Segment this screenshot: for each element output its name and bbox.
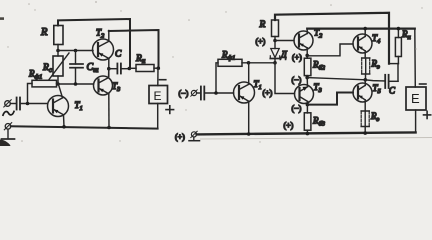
wire T5 collector up [364, 80, 366, 86]
wire inner bus right circuit [307, 28, 415, 30]
input terminal right [191, 90, 197, 96]
resistor Rb2 [304, 58, 311, 75]
capacitor C [117, 64, 129, 74]
node Rb3 rail [306, 132, 310, 136]
wire mid bus to cap C right [365, 80, 385, 81]
diode D [270, 49, 279, 63]
resistor Rn right [395, 38, 401, 57]
node Rn E junction [157, 66, 161, 70]
transistor T1 [48, 96, 69, 117]
wire R bottom to thermistor [57, 45, 59, 57]
transistor T4 [353, 34, 372, 53]
node R diode T2 base [273, 39, 277, 43]
node Csh top [74, 49, 78, 53]
wire T1 collector up to bus [59, 85, 63, 98]
svg-text:R: R [40, 27, 48, 38]
capacitor input right [197, 87, 234, 100]
svg-text:(−): (−) [179, 89, 189, 98]
wire R bottom to diode [274, 37, 276, 49]
wire Rn bottom link [389, 63, 398, 65]
resistor R [54, 26, 63, 45]
wire T3 emitter down [108, 94, 110, 128]
wire Rc bottom lead [57, 76, 59, 84]
label minus [160, 79, 166, 81]
resistor Rb3 [304, 113, 311, 130]
wire bus right end down to battery [414, 29, 417, 87]
wire base bus to T2 [58, 50, 93, 52]
wire top rail right circuit [275, 13, 389, 64]
node T4 collector [363, 27, 367, 31]
wire Re1 bottom lead [365, 74, 367, 80]
svg-text:C: C [115, 50, 122, 60]
wire input to cap [10, 103, 16, 105]
wire Rb3 top lead [306, 105, 308, 113]
wire T4 emitter down [364, 51, 366, 58]
node output junction [107, 67, 111, 71]
node base bus T2 [56, 49, 60, 53]
wire lower bus to T3 base [58, 83, 94, 85]
label minus battery right [420, 83, 427, 85]
node T1 emitter rail [247, 132, 251, 136]
wire mid bus [307, 78, 365, 80]
wire T2 emitter to T4 base [307, 44, 353, 56]
wire input cap to T1 base [20, 103, 47, 105]
wire T1 collector up [248, 63, 250, 85]
wire battery to bottom rail [157, 104, 159, 129]
wire T3 emitter to T5 base [307, 93, 353, 105]
svg-text:C: C [389, 86, 396, 96]
wire T3 collector up [306, 78, 308, 87]
bottom left corner blob [0, 140, 11, 147]
svg-text:(+): (+) [284, 121, 294, 130]
node T3 emitter on rail [107, 126, 111, 130]
label plus [166, 106, 174, 114]
capacitor input left [17, 98, 20, 110]
transistor T5 [353, 83, 372, 102]
wire bottom rail right circuit [197, 132, 416, 134]
node input junction [26, 102, 30, 106]
svg-text:(−): (−) [292, 104, 302, 113]
wire to T2 base [275, 40, 294, 42]
wire T3 emitter down [307, 101, 309, 104]
label plus battery right [424, 111, 431, 118]
wire T1 emitter down to rail [248, 101, 250, 134]
node T1 collector [247, 61, 251, 65]
svg-text:(+): (+) [256, 37, 266, 46]
battery E right [406, 87, 426, 110]
wire junction down to battery [157, 68, 159, 85]
wire T3 collector up [108, 69, 110, 78]
node Csh bottom [74, 82, 78, 86]
transistor T2 [93, 39, 114, 60]
wire T2 collector up [306, 29, 308, 34]
node diode foot [273, 61, 277, 65]
transistor T3 right [295, 85, 314, 104]
svg-text:R: R [259, 20, 266, 30]
svg-text:(+): (+) [263, 89, 273, 98]
node Re2 rail [363, 131, 367, 135]
wire Rn right lead [154, 67, 158, 69]
wire Rf1 right lead [57, 83, 59, 85]
node Re1 T5 collector [364, 78, 368, 82]
node Rc bottom [56, 82, 60, 86]
battery E [149, 86, 168, 104]
svg-text:(+): (+) [292, 53, 302, 62]
faint bottom line [200, 138, 432, 140]
wire Rf1 left lead down [216, 63, 218, 93]
resistor Rf1 [32, 80, 57, 87]
svg-text:(−): (−) [292, 76, 302, 85]
wire diode chain down to T3 base [275, 63, 295, 94]
node Rn top [397, 27, 401, 31]
wire Rf1 right to diode foot [242, 62, 275, 64]
ground right [189, 137, 200, 141]
wire Re2 bottom lead [364, 127, 366, 134]
wire T4 collector up [364, 29, 366, 37]
transistor T1 right [234, 82, 255, 103]
resistor Rn [136, 65, 154, 72]
wire T2 collector up [108, 31, 110, 42]
wire top supply rail left circuit [58, 19, 130, 68]
transistor T3 [94, 76, 113, 95]
wire T2 emitter to T3 collector [108, 59, 110, 77]
wire junction to cap C [109, 68, 117, 70]
wire battery bottom to rail [415, 110, 417, 132]
wire cap up to Rn bottom [397, 64, 399, 82]
node Rf1 input junction [214, 91, 218, 95]
resistor Re2 [361, 111, 369, 127]
capacitor C right [385, 75, 398, 88]
wire bottom rail left circuit [11, 126, 158, 128]
ground [2, 129, 15, 139]
wire T5 emitter down [364, 100, 366, 111]
ac source tilde [3, 111, 14, 115]
resistor Rf1 right [218, 59, 242, 66]
capacitor Csh [70, 51, 83, 85]
wire T2 emitter down [306, 48, 308, 58]
ground terminal right [191, 131, 197, 137]
node T3 emitter Rb3 [306, 103, 310, 107]
wire Rb2 bottom lead [306, 76, 308, 78]
node T2 emitter Rb2 [305, 54, 309, 58]
input terminal top [4, 100, 11, 107]
wire Rf1 left lead down to input [28, 84, 33, 104]
wire Rn bottom lead [397, 57, 399, 64]
svg-text:E: E [154, 89, 162, 103]
svg-text:E: E [411, 91, 420, 106]
wire Rn top lead [397, 29, 399, 38]
resistor R right [272, 20, 279, 37]
wire T1 emitter down [63, 115, 66, 127]
svg-text:(+): (+) [175, 133, 185, 142]
node Rb2 T3 collector [305, 76, 309, 80]
left edge dash [0, 17, 4, 20]
thermistor Rc [49, 53, 69, 80]
transistor T2 right [294, 31, 313, 50]
wire junction to Rn [129, 67, 136, 69]
node C Rn junction [128, 67, 132, 71]
resistor Re1 [362, 58, 370, 74]
wire Rb3 bottom lead [306, 130, 308, 134]
ground terminal bottom left [4, 123, 11, 130]
node T1 emitter on rail [62, 125, 66, 129]
wire inner rail left circuit [109, 30, 159, 68]
